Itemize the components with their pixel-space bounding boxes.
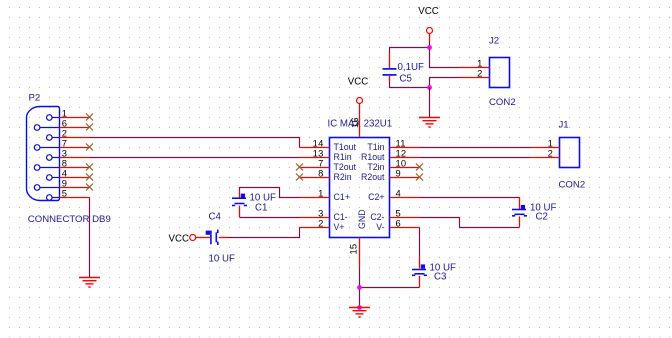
svg-text:C3: C3 [434, 272, 446, 283]
wire DB9 pin3 to U1 pin13 [90, 157, 300, 159]
svg-text:C5: C5 [400, 74, 412, 85]
wire VCC to junction [429, 41, 431, 47]
J2 red pin 1 [460, 67, 490, 69]
wire junction to C5 top [390, 48, 430, 54]
wire U1 pin2 to C4 [229, 228, 300, 238]
svg-text:C2-: C2- [370, 212, 384, 222]
wire junction to C3 bottom [360, 287, 420, 289]
capacitor C3 top lead [419, 257, 421, 268]
capacitor C5 bottom lead [389, 76, 391, 82]
svg-text:2: 2 [318, 218, 323, 229]
svg-text:T2in: T2in [367, 162, 384, 172]
P2 pin circle 5 [47, 195, 53, 201]
wire DB9 pin5 to ground [89, 198, 91, 278]
svg-text:R1in: R1in [334, 152, 352, 162]
P2 red pin wire 7 [60, 147, 90, 149]
capacitor C1 bottom lead [239, 206, 241, 217]
wire U1 pin4 to C2 top [420, 197, 520, 199]
capacitor C4 plates polarized [206, 230, 218, 245]
svg-text:V-: V- [376, 222, 384, 232]
VCC port circle left [190, 235, 196, 241]
svg-text:C1-: C1- [334, 212, 348, 222]
U1 red pin 10 [390, 167, 420, 169]
svg-text:16: 16 [349, 117, 360, 128]
P2 pin stub pin6 [40, 127, 60, 129]
no-connect X pin8 [86, 164, 93, 171]
wire U1 pin1 to C1 top [240, 188, 300, 198]
wire C5 bottom to junction [390, 82, 430, 88]
P2 pin circle 7 [34, 145, 40, 151]
svg-text:C4: C4 [209, 212, 222, 223]
U1 pin16 wire to VCC [359, 104, 361, 138]
P2 red pin wire 8 [60, 167, 90, 169]
wire DB9 pin2 to U1 pin14 [90, 138, 300, 148]
no-connect X pin6 [86, 124, 93, 131]
svg-text:J2: J2 [489, 36, 499, 47]
P2 pin circle 1 [47, 115, 53, 121]
P2 pin circle 3 [47, 155, 53, 161]
capacitor C1 top lead [239, 191, 241, 198]
P2 red pin wire 5 [60, 197, 90, 199]
J1 red pin 1 [530, 147, 560, 149]
svg-text:R2in: R2in [334, 172, 352, 182]
P2 pin circle 9 [34, 185, 40, 191]
junction dot at pin15 net [357, 285, 362, 290]
svg-text:VCC: VCC [418, 6, 438, 17]
no-connect X U1 pin7 [296, 164, 303, 171]
capacitor C2 bottom lead [519, 216, 521, 227]
no-connect X pin4 [86, 174, 93, 181]
no-connect X pin9 [86, 184, 93, 191]
wire VCC junction to J2 pin1 [430, 48, 460, 68]
svg-text:CON2: CON2 [559, 180, 586, 191]
svg-text:P2: P2 [29, 93, 41, 104]
no-connect X U1 pin8 [296, 174, 303, 181]
capacitor C5 plates [383, 69, 397, 75]
P2 pin circle 8 [34, 165, 40, 171]
P2 red pin wire 1 [60, 117, 90, 119]
svg-text:0,1UF: 0,1UF [398, 62, 424, 73]
U1 red pin 5 [390, 217, 420, 219]
wire U1 pin6 to C3 top [419, 228, 421, 258]
capacitor C2 top lead [519, 197, 521, 209]
wire gnd junction to J2 pin2 [430, 78, 460, 88]
svg-text:R2out: R2out [361, 172, 385, 182]
capacitor C3 bottom lead [419, 276, 421, 287]
ground symbol under P2 [79, 278, 100, 288]
P2 pin stub pin1 [52, 117, 60, 119]
U1 red pin 8 [300, 177, 330, 179]
P2 pin circle 2 [47, 135, 53, 141]
wire C1 bottom to U1 pin3 [240, 217, 300, 219]
no-connect X U1 pin10 [416, 164, 423, 171]
connector J1 box [560, 138, 580, 168]
P2 red pin wire 3 [60, 157, 90, 159]
VCC port circle above U1 [357, 98, 363, 104]
U1 pin15 red pin wire [359, 238, 361, 268]
svg-text:10 UF: 10 UF [209, 254, 235, 265]
P2 red pin wire 6 [60, 127, 90, 129]
ground symbol under U1 [349, 308, 370, 318]
junction dot at ground top [357, 305, 362, 310]
P2 red pin wire 2 [60, 137, 90, 139]
connector P2 DB9 body [27, 107, 60, 201]
P2 pin stub pin7 [40, 147, 60, 149]
P2 pin circle 4 [47, 175, 53, 181]
svg-text:8: 8 [318, 168, 323, 179]
svg-text:V+: V+ [334, 222, 345, 232]
P2 pin stub pin8 [40, 167, 60, 169]
svg-text:C2+: C2+ [368, 192, 384, 202]
VCC stub red [429, 34, 431, 42]
svg-text:R1out: R1out [361, 152, 385, 162]
P2 pin stub pin3 [52, 157, 60, 159]
U1 red pin 13 [300, 157, 330, 159]
junction dot VCC top [427, 45, 432, 50]
P2 pin stub pin9 [40, 187, 60, 189]
svg-text:CONNECTOR DB9: CONNECTOR DB9 [28, 214, 111, 225]
svg-text:6: 6 [396, 218, 401, 229]
U1 red pin 3 [300, 217, 330, 219]
ground symbol under C5 [419, 118, 440, 128]
P2 pin stub pin2 [52, 137, 60, 139]
no-connect X U1 pin9 [416, 174, 423, 181]
U1 red pin 14 [300, 147, 330, 149]
no-connect X pin7 [86, 144, 93, 151]
svg-text:2: 2 [548, 148, 553, 159]
no-connect X pin1 [86, 114, 93, 121]
U1 red pin 7 [300, 167, 330, 169]
svg-text:2: 2 [477, 68, 482, 79]
P2 red pin wire 4 [60, 177, 90, 179]
capacitor C2 plates polarized [512, 205, 527, 216]
U1 red pin 2 [300, 227, 330, 229]
svg-text:C1+: C1+ [334, 192, 350, 202]
op IC U1 box MAX232 [330, 138, 390, 238]
connector J2 box [490, 58, 510, 88]
svg-text:T1in: T1in [367, 142, 384, 152]
wire junction down to ground [359, 287, 361, 307]
wire C2 bottom to U1 pin5 [420, 218, 520, 228]
U1 red pin 11 [390, 147, 420, 149]
capacitor C1 plates polarized [232, 194, 247, 206]
svg-text:T1out: T1out [334, 142, 357, 152]
capacitor C5 top lead [389, 54, 391, 69]
J2 red pin 2 [460, 77, 490, 79]
wire U1 pin12 to J1 [420, 157, 530, 159]
svg-text:T2out: T2out [334, 162, 357, 172]
J1 red pin 2 [530, 157, 560, 159]
U1 red pin 9 [390, 177, 420, 179]
P2 pin stub pin5 [52, 197, 60, 199]
svg-text:4: 4 [396, 188, 401, 199]
U1 red pin 1 [300, 197, 330, 199]
svg-text:C1: C1 [255, 203, 267, 214]
P2 pin circle 6 [34, 125, 40, 131]
svg-text:VCC: VCC [169, 234, 189, 245]
junction dot C5 bottom [427, 85, 432, 90]
U1 red pin 4 [390, 197, 420, 199]
U1 red pin 12 [390, 157, 420, 159]
svg-text:CON2: CON2 [489, 97, 516, 108]
P2 pin stub pin4 [52, 177, 60, 179]
U1 red pin 6 [390, 227, 420, 229]
svg-text:GND: GND [357, 209, 367, 229]
wire C5 junction to ground [429, 87, 431, 117]
capacitor C4 left lead [196, 237, 210, 239]
svg-text:VCC: VCC [348, 77, 368, 88]
wire U1 pin11 to J1 [420, 147, 530, 149]
VCC port circle top [427, 28, 433, 34]
wire pin15 to ground junction [359, 267, 361, 287]
capacitor C3 plates polarized [412, 264, 427, 275]
svg-text:1: 1 [318, 188, 323, 199]
P2 red pin wire 9 [60, 187, 90, 189]
svg-text:15: 15 [348, 244, 359, 255]
svg-text:9: 9 [396, 168, 401, 179]
svg-text:C2: C2 [536, 212, 548, 223]
capacitor C4 right lead [219, 237, 229, 239]
svg-text:J1: J1 [559, 120, 569, 131]
